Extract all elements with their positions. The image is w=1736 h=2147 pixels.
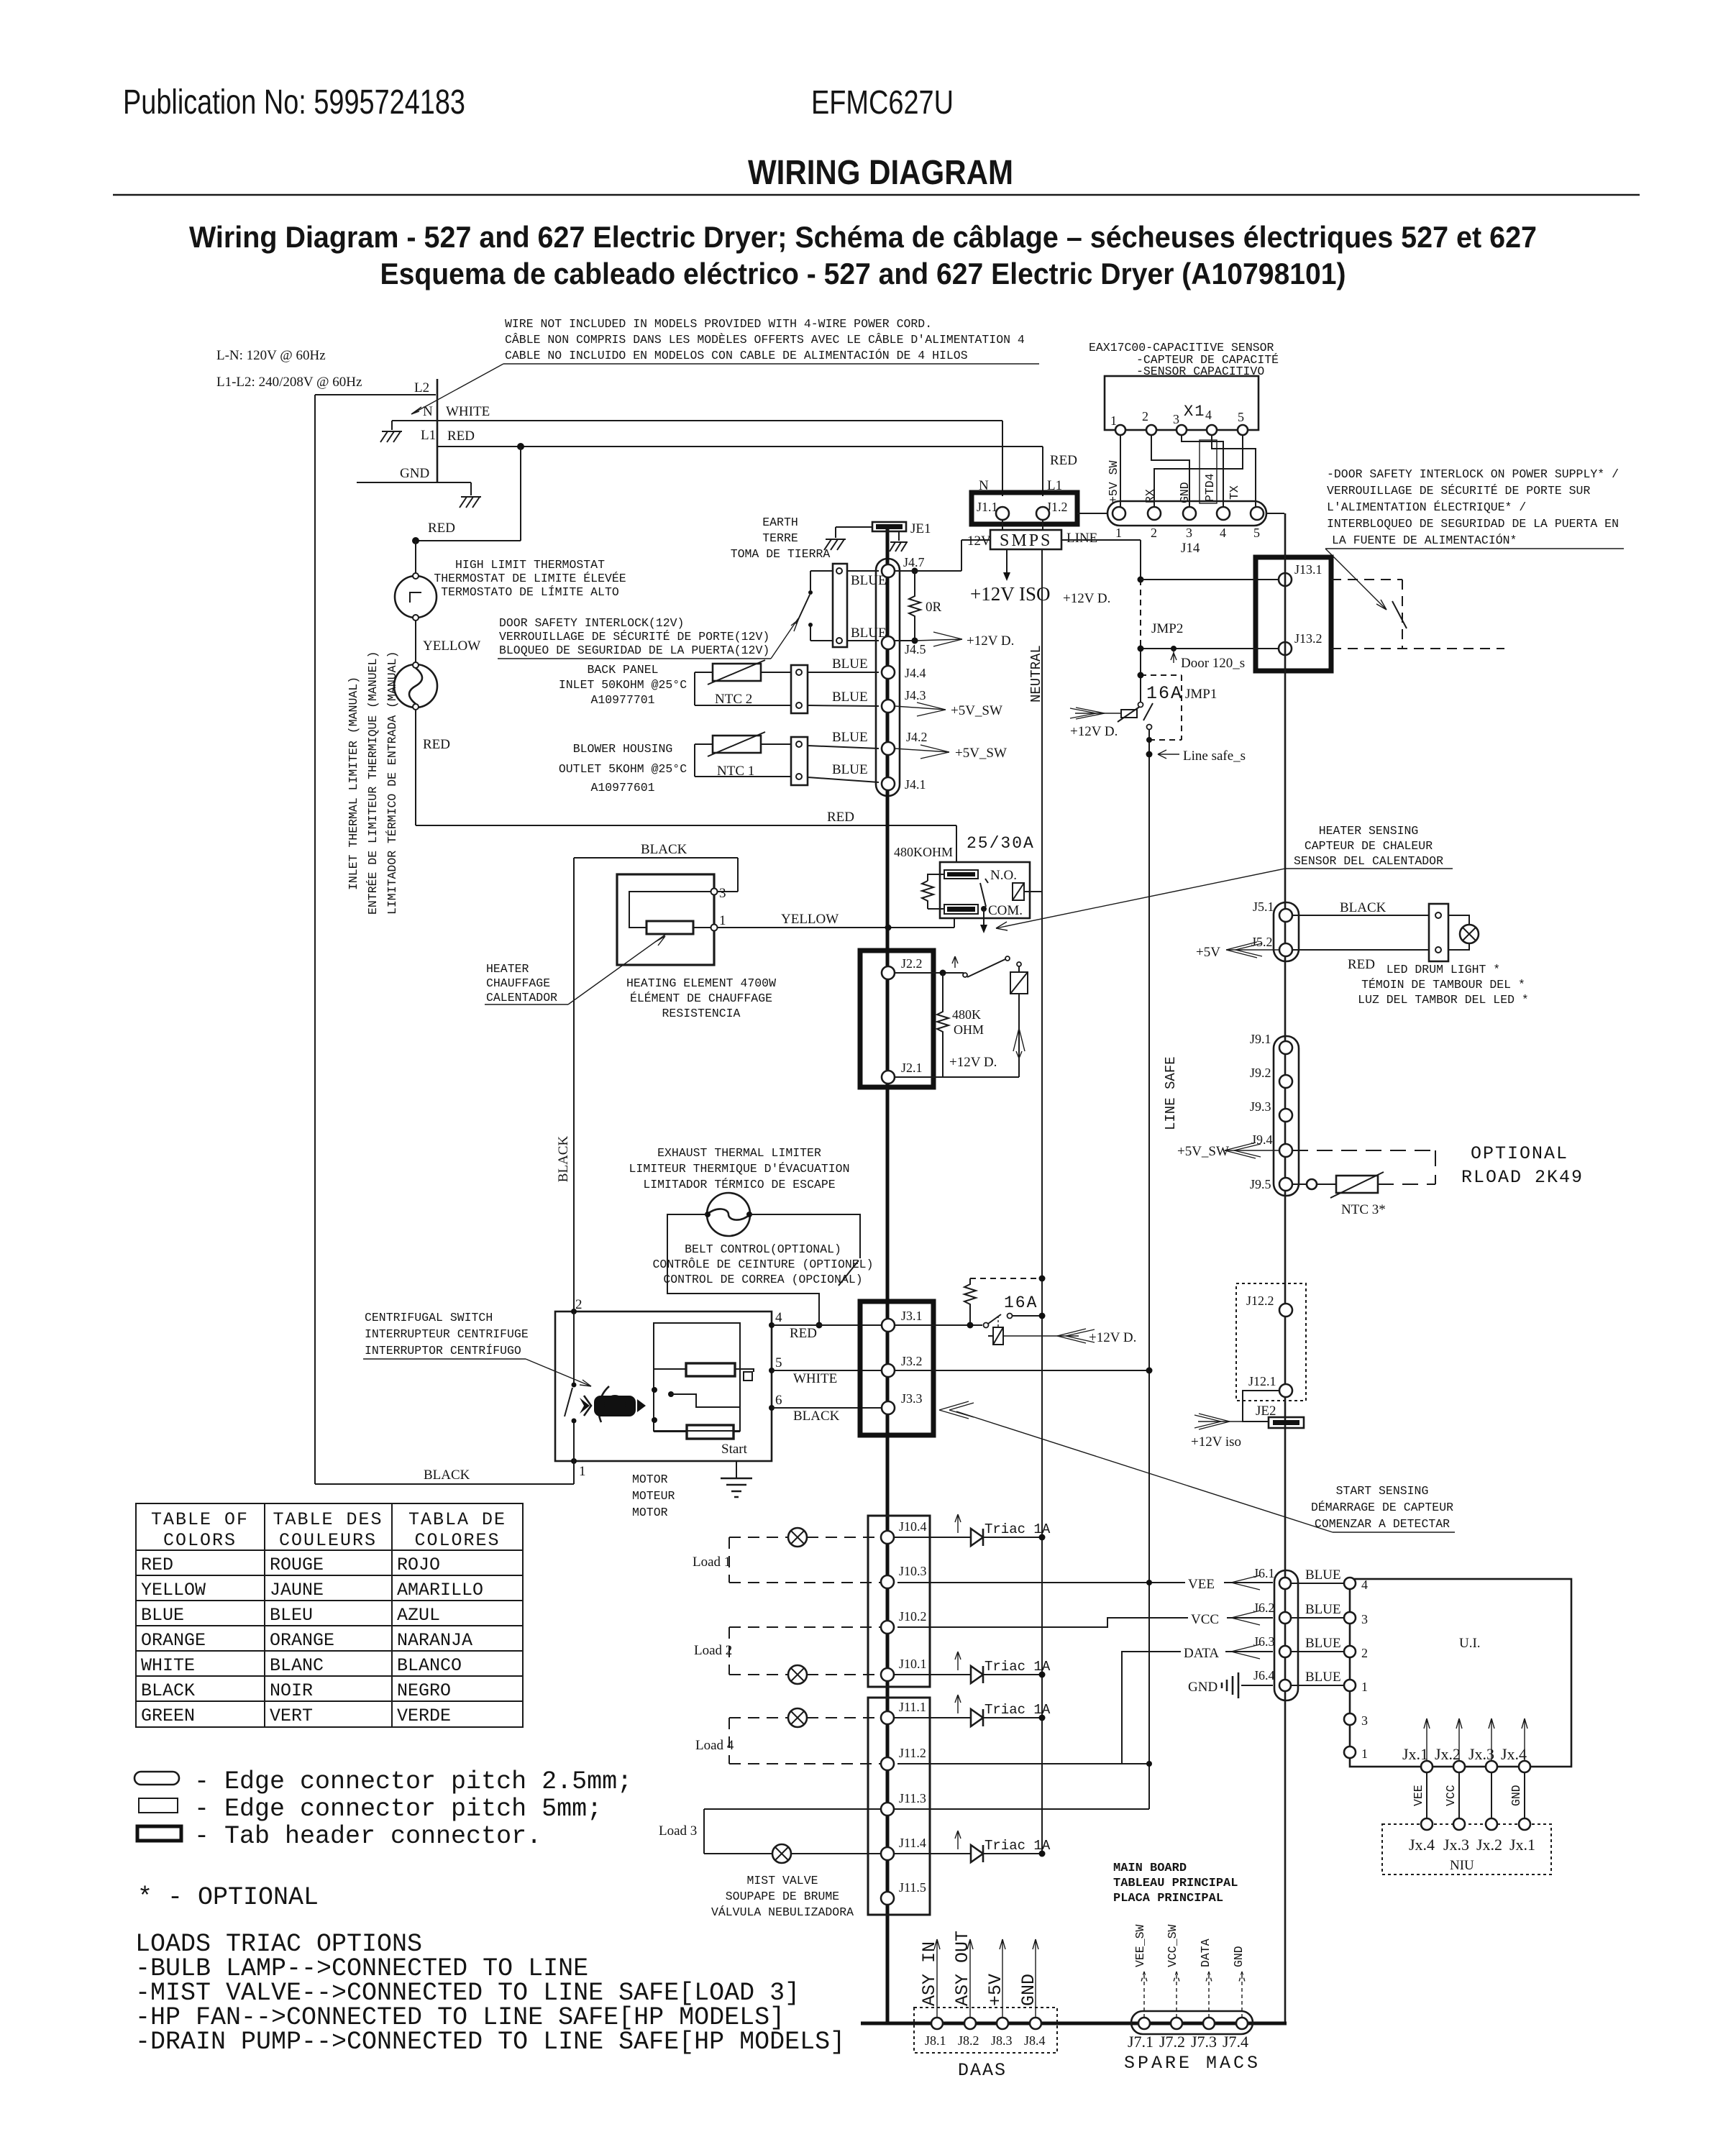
svg-text:J6.1: J6.1 (1253, 1566, 1275, 1580)
svg-text:5: 5 (775, 1355, 782, 1370)
svg-text:5: 5 (1238, 410, 1244, 424)
svg-text:+12V ISO: +12V ISO (970, 583, 1051, 605)
svg-text:J11.3: J11.3 (899, 1791, 926, 1805)
svg-text:4: 4 (1361, 1578, 1368, 1592)
svg-text:J8.2: J8.2 (958, 2033, 979, 2048)
svg-text:HEATING ELEMENT 4700W: HEATING ELEMENT 4700W (626, 976, 776, 990)
svg-text:Load 3: Load 3 (659, 1823, 697, 1839)
svg-text:J4.4: J4.4 (905, 666, 926, 680)
svg-text:SMPS: SMPS (1000, 531, 1052, 550)
svg-text:J12.1: J12.1 (1248, 1374, 1276, 1388)
svg-text:L1-L2: 240/208V @ 60Hz: L1-L2: 240/208V @ 60Hz (216, 375, 362, 390)
svg-text:- Tab header connector.: - Tab header connector. (194, 1822, 542, 1851)
svg-text:BLOQUEO DE SEGURIDAD DE LA PUE: BLOQUEO DE SEGURIDAD DE LA PUERTA(12V) (499, 644, 769, 657)
svg-text:Publication No: 5995724183: Publication No: 5995724183 (123, 83, 465, 122)
svg-text:ÉLÉMENT DE CHAUFFAGE: ÉLÉMENT DE CHAUFFAGE (630, 992, 772, 1005)
svg-text:COLORS: COLORS (163, 1530, 237, 1551)
svg-text:TABLEAU PRINCIPAL: TABLEAU PRINCIPAL (1113, 1877, 1238, 1890)
svg-text:Jx.4: Jx.4 (1501, 1745, 1527, 1763)
svg-text:COULEURS: COULEURS (279, 1530, 377, 1551)
svg-text:2: 2 (1151, 526, 1157, 540)
svg-text:J4.5: J4.5 (905, 642, 926, 656)
svg-text:Triac 1A: Triac 1A (985, 1702, 1051, 1718)
svg-text:GND: GND (1188, 1680, 1218, 1695)
svg-text:J7.4: J7.4 (1223, 2033, 1248, 2051)
svg-text:START SENSING: START SENSING (1336, 1484, 1429, 1498)
svg-text:BLACK: BLACK (424, 1468, 470, 1483)
svg-text:J3.1: J3.1 (901, 1309, 923, 1323)
svg-text:+12V iso: +12V iso (1191, 1434, 1241, 1450)
svg-text:* - OPTIONAL: * - OPTIONAL (137, 1883, 319, 1912)
svg-text:VCC: VCC (1444, 1785, 1458, 1806)
svg-text:1: 1 (719, 913, 726, 928)
svg-text:AZUL: AZUL (397, 1605, 440, 1626)
svg-text:GND: GND (1232, 1946, 1246, 1967)
svg-text:BLUE: BLUE (832, 730, 868, 745)
svg-text:DATA: DATA (1184, 1646, 1219, 1661)
svg-text:5: 5 (1253, 526, 1260, 540)
svg-text:YELLOW: YELLOW (141, 1580, 206, 1601)
svg-text:EXHAUST THERMAL LIMITER: EXHAUST THERMAL LIMITER (657, 1146, 821, 1160)
svg-text:INTERBLOQUEO DE SEGURIDAD DE L: INTERBLOQUEO DE SEGURIDAD DE LA PUERTA E… (1327, 517, 1619, 531)
svg-text:JE1: JE1 (910, 521, 931, 536)
svg-text:SENSOR DEL CALENTADOR: SENSOR DEL CALENTADOR (1294, 854, 1443, 868)
svg-text:Triac 1A: Triac 1A (985, 1838, 1051, 1854)
svg-text:Jx.1: Jx.1 (1402, 1745, 1428, 1763)
svg-text:WHITE: WHITE (141, 1655, 195, 1676)
svg-text:BLUE: BLUE (851, 626, 887, 641)
svg-text:Start: Start (721, 1442, 748, 1457)
svg-text:J7.3: J7.3 (1191, 2033, 1217, 2051)
svg-text:PTD4: PTD4 (1203, 473, 1217, 502)
svg-text:COLORES: COLORES (414, 1530, 500, 1551)
svg-text:DAAS: DAAS (958, 2060, 1007, 2081)
svg-text:J4.3: J4.3 (905, 688, 926, 702)
svg-text:3: 3 (1361, 1612, 1368, 1626)
svg-text:2: 2 (1142, 409, 1148, 424)
svg-text:CABLE NO INCLUIDO EN MODELOS C: CABLE NO INCLUIDO EN MODELOS CON CABLE D… (505, 349, 968, 362)
svg-text:TX: TX (1228, 485, 1241, 500)
svg-text:Jx.4: Jx.4 (1409, 1836, 1435, 1854)
svg-text:J13.1: J13.1 (1294, 562, 1322, 577)
svg-text:SPARE MACS: SPARE MACS (1124, 2053, 1261, 2074)
svg-text:BACK PANEL: BACK PANEL (587, 663, 658, 677)
svg-text:Triac 1A: Triac 1A (985, 1659, 1051, 1675)
svg-text:J3.2: J3.2 (901, 1354, 923, 1368)
svg-text:VERROUILLAGE DE SÉCURITÉ DE PO: VERROUILLAGE DE SÉCURITÉ DE PORTE(12V) (499, 630, 769, 644)
svg-text:RED: RED (1348, 957, 1375, 972)
svg-text:CENTRIFUGAL SWITCH: CENTRIFUGAL SWITCH (365, 1311, 493, 1324)
svg-text:VEE: VEE (1412, 1785, 1425, 1806)
svg-text:OUTLET 5KOHM @25°C: OUTLET 5KOHM @25°C (559, 762, 687, 776)
svg-text:BLUE: BLUE (141, 1605, 184, 1626)
svg-text:LIMITADOR TÉRMICO DE ENTRADA (: LIMITADOR TÉRMICO DE ENTRADA (MANUAL) (385, 651, 399, 915)
svg-text:NIU: NIU (1450, 1858, 1474, 1873)
svg-text:BLUE: BLUE (851, 573, 887, 588)
svg-text:25/30A: 25/30A (967, 834, 1035, 853)
svg-text:MOTEUR: MOTEUR (632, 1489, 675, 1503)
svg-text:0R: 0R (926, 600, 942, 615)
svg-text:ASY OUT: ASY OUT (952, 1931, 973, 2006)
svg-text:ENTRÉE DE LIMITEUR THERMIQUE (: ENTRÉE DE LIMITEUR THERMIQUE (MANUEL) (366, 651, 380, 915)
svg-text:RESISTENCIA: RESISTENCIA (662, 1007, 741, 1020)
svg-text:J11.2: J11.2 (899, 1746, 926, 1760)
svg-text:GND: GND (1509, 1785, 1523, 1806)
svg-text:BLACK: BLACK (641, 842, 687, 857)
svg-text:Wiring Diagram - 527 and 627 E: Wiring Diagram - 527 and 627 Electric Dr… (189, 220, 1537, 254)
svg-text:-DRAIN PUMP-->CONNECTED TO LIN: -DRAIN PUMP-->CONNECTED TO LINE SAFE[HP … (135, 2028, 845, 2056)
svg-text:RLOAD 2K49: RLOAD 2K49 (1461, 1167, 1584, 1188)
svg-text:RED: RED (827, 810, 854, 825)
svg-text:VÁLVULA NEBULIZADORA: VÁLVULA NEBULIZADORA (711, 1905, 854, 1919)
svg-text:J5.1: J5.1 (1253, 899, 1274, 914)
svg-text:JMP1: JMP1 (1185, 687, 1217, 702)
svg-text:X1: X1 (1184, 403, 1205, 421)
svg-text:J14: J14 (1181, 541, 1200, 556)
svg-text:YELLOW: YELLOW (781, 912, 839, 927)
svg-text:J4.7: J4.7 (903, 555, 925, 569)
svg-text:4: 4 (775, 1310, 782, 1325)
svg-text:Load 1: Load 1 (693, 1555, 731, 1570)
svg-text:L'ALIMENTATION ÉLECTRIQUE* /: L'ALIMENTATION ÉLECTRIQUE* / (1327, 500, 1526, 514)
svg-text:+12V D.: +12V D. (1063, 591, 1110, 606)
svg-text:BLUE: BLUE (1305, 1602, 1341, 1617)
svg-text:J9.3: J9.3 (1250, 1099, 1271, 1114)
svg-text:N.O.: N.O. (990, 868, 1017, 883)
svg-text:BLANCO: BLANCO (397, 1655, 462, 1676)
svg-text:6: 6 (775, 1393, 782, 1408)
svg-text:GREEN: GREEN (141, 1706, 195, 1726)
svg-text:NARANJA: NARANJA (397, 1630, 472, 1651)
svg-text:COM.: COM. (988, 903, 1023, 918)
svg-text:MAIN BOARD: MAIN BOARD (1113, 1862, 1187, 1875)
svg-text:LA FUENTE DE ALIMENTACIÓN*: LA FUENTE DE ALIMENTACIÓN* (1332, 534, 1517, 547)
svg-text:+5V SW: +5V SW (1107, 460, 1120, 503)
svg-text:HIGH LIMIT THERMOSTAT: HIGH LIMIT THERMOSTAT (455, 558, 605, 572)
svg-text:SOUPAPE DE BRUME: SOUPAPE DE BRUME (726, 1890, 840, 1903)
svg-text:WIRE NOT INCLUDED IN MODELS PR: WIRE NOT INCLUDED IN MODELS PROVIDED WIT… (505, 317, 932, 331)
svg-text:+12V D.: +12V D. (1070, 724, 1118, 739)
svg-text:J10.3: J10.3 (899, 1564, 927, 1578)
svg-text:480KOHM: 480KOHM (894, 845, 953, 859)
svg-text:+12V D.: +12V D. (1089, 1330, 1136, 1345)
svg-text:J1.1: J1.1 (977, 500, 998, 514)
svg-text:BLACK: BLACK (793, 1409, 840, 1424)
svg-text:GND: GND (1018, 1974, 1039, 2006)
svg-text:J9.4: J9.4 (1251, 1132, 1273, 1147)
svg-text:GND: GND (1178, 482, 1192, 503)
svg-text:BLACK: BLACK (141, 1680, 195, 1701)
svg-text:RED: RED (790, 1326, 817, 1341)
svg-text:VCC_SW: VCC_SW (1166, 1924, 1179, 1967)
svg-text:L1: L1 (421, 428, 436, 443)
svg-text:AMARILLO: AMARILLO (397, 1580, 483, 1601)
svg-text:3: 3 (1361, 1713, 1368, 1728)
svg-text:ROJO: ROJO (397, 1555, 440, 1575)
svg-text:+5V_SW: +5V_SW (1177, 1144, 1229, 1159)
svg-text:J4.1: J4.1 (905, 777, 926, 792)
svg-text:OPTIONAL: OPTIONAL (1471, 1143, 1568, 1164)
svg-text:Esquema de cableado eléctrico: Esquema de cableado eléctrico - 527 and … (380, 257, 1346, 290)
svg-text:VERDE: VERDE (397, 1706, 451, 1726)
svg-text:ROUGE: ROUGE (270, 1555, 324, 1575)
svg-text:THERMOSTAT DE LIMITE ÉLEVÉE: THERMOSTAT DE LIMITE ÉLEVÉE (434, 572, 626, 585)
svg-text:TERRE: TERRE (762, 531, 798, 545)
svg-text:L-N: 120V @ 60Hz: L-N: 120V @ 60Hz (216, 348, 326, 363)
svg-text:J6.4: J6.4 (1253, 1668, 1275, 1683)
svg-text:J11.1: J11.1 (899, 1700, 926, 1714)
svg-text:RED: RED (1050, 453, 1077, 468)
svg-text:J2.2: J2.2 (901, 956, 923, 971)
svg-text:DÉMARRAGE DE CAPTEUR: DÉMARRAGE DE CAPTEUR (1311, 1501, 1453, 1514)
svg-text:BELT CONTROL(OPTIONAL): BELT CONTROL(OPTIONAL) (685, 1242, 841, 1256)
svg-text:Load 2: Load 2 (694, 1643, 732, 1658)
svg-text:1: 1 (1361, 1747, 1368, 1761)
svg-text:NOIR: NOIR (270, 1680, 313, 1701)
svg-text:VERT: VERT (270, 1706, 313, 1726)
svg-text:Jx.2: Jx.2 (1435, 1745, 1461, 1763)
svg-text:J5.2: J5.2 (1251, 935, 1273, 949)
svg-text:3: 3 (1186, 526, 1192, 540)
svg-text:VEE: VEE (1188, 1577, 1215, 1592)
svg-text:J10.2: J10.2 (899, 1609, 927, 1624)
svg-text:TABLA DE: TABLA DE (408, 1509, 506, 1530)
svg-text:JMP2: JMP2 (1151, 621, 1183, 636)
svg-text:J9.2: J9.2 (1250, 1066, 1271, 1080)
svg-text:TÉMOIN DE TAMBOUR DEL *: TÉMOIN DE TAMBOUR DEL * (1361, 978, 1525, 992)
svg-text:RED: RED (428, 521, 455, 536)
svg-text:NTC 2: NTC 2 (715, 692, 752, 707)
svg-text:2: 2 (1361, 1646, 1368, 1660)
svg-text:LIMITEUR THERMIQUE D'ÉVACUATIO: LIMITEUR THERMIQUE D'ÉVACUATION (629, 1162, 850, 1176)
svg-text:VCC: VCC (1191, 1612, 1219, 1627)
svg-text:CHAUFFAGE: CHAUFFAGE (486, 976, 550, 990)
svg-text:2: 2 (575, 1297, 583, 1312)
svg-text:JAUNE: JAUNE (270, 1580, 324, 1601)
svg-text:INLET 50KOHM @25°C: INLET 50KOHM @25°C (559, 678, 687, 692)
svg-text:+5V_SW: +5V_SW (951, 703, 1002, 718)
svg-text:A10977601: A10977601 (590, 781, 654, 795)
svg-text:DOOR SAFETY INTERLOCK(12V): DOOR SAFETY INTERLOCK(12V) (499, 616, 684, 630)
svg-text:RED: RED (423, 737, 450, 752)
svg-text:CALENTADOR: CALENTADOR (486, 991, 557, 1004)
svg-text:BLUE: BLUE (1305, 1636, 1341, 1651)
svg-text:BLUE: BLUE (832, 762, 868, 777)
svg-text:BLUE: BLUE (832, 656, 868, 672)
svg-text:WHITE: WHITE (446, 404, 490, 419)
svg-text:CAPTEUR DE CHALEUR: CAPTEUR DE CHALEUR (1305, 839, 1433, 853)
svg-text:J4.2: J4.2 (906, 730, 928, 744)
svg-text:BLANC: BLANC (270, 1655, 324, 1676)
svg-text:COMENZAR A DETECTAR: COMENZAR A DETECTAR (1315, 1517, 1450, 1531)
svg-text:J6.2: J6.2 (1253, 1601, 1275, 1615)
svg-text:J8.1: J8.1 (925, 2033, 946, 2048)
svg-text:ASY IN: ASY IN (919, 1941, 940, 2006)
svg-text:INLET THERMAL LIMITER (MANUAL): INLET THERMAL LIMITER (MANUAL) (347, 677, 360, 890)
svg-text:J13.2: J13.2 (1294, 631, 1322, 646)
svg-text:BLACK: BLACK (556, 1136, 571, 1183)
svg-text:3: 3 (1173, 412, 1179, 426)
svg-text:TOMA DE TIERRA: TOMA DE TIERRA (731, 547, 831, 561)
svg-text:TABLE OF: TABLE OF (151, 1509, 249, 1530)
svg-text:MOTOR: MOTOR (632, 1473, 668, 1486)
svg-text:480K: 480K (952, 1007, 981, 1022)
svg-text:1: 1 (1115, 526, 1122, 540)
svg-text:Jx.1: Jx.1 (1509, 1836, 1535, 1854)
svg-text:CONTRÔLE DE CEINTURE (OPTIONEL: CONTRÔLE DE CEINTURE (OPTIONEL) (653, 1258, 874, 1271)
svg-text:MIST VALVE: MIST VALVE (746, 1874, 818, 1887)
svg-text:A10977701: A10977701 (590, 693, 654, 707)
svg-text:Load 4: Load 4 (695, 1738, 734, 1753)
svg-text:L2: L2 (414, 380, 429, 395)
svg-text:J10.4: J10.4 (899, 1519, 927, 1534)
svg-text:+5V: +5V (1196, 945, 1220, 960)
svg-text:OHM: OHM (954, 1022, 984, 1037)
svg-text:HEATER: HEATER (486, 962, 529, 976)
svg-text:J11.4: J11.4 (899, 1836, 926, 1850)
svg-text:ORANGE: ORANGE (141, 1630, 206, 1651)
svg-text:LUZ DEL TAMBOR DEL LED *: LUZ DEL TAMBOR DEL LED * (1358, 993, 1529, 1007)
svg-text:J8.3: J8.3 (991, 2033, 1013, 2048)
svg-text:+12V D.: +12V D. (949, 1055, 997, 1070)
svg-text:J9.1: J9.1 (1250, 1032, 1271, 1046)
svg-text:4: 4 (1205, 408, 1212, 422)
svg-text:WIRING DIAGRAM: WIRING DIAGRAM (748, 154, 1013, 192)
svg-text:1: 1 (579, 1464, 586, 1479)
svg-text:16A: 16A (1004, 1294, 1038, 1312)
svg-text:CÂBLE NON COMPRIS DANS LES MOD: CÂBLE NON COMPRIS DANS LES MODÈLES OFFER… (505, 333, 1025, 347)
svg-text:TERMOSTATO DE LÍMITE ALTO: TERMOSTATO DE LÍMITE ALTO (441, 585, 619, 599)
svg-text:J12.2: J12.2 (1246, 1294, 1274, 1308)
svg-text:NTC 3*: NTC 3* (1341, 1202, 1386, 1217)
svg-text:Jx.3: Jx.3 (1468, 1745, 1494, 1763)
svg-text:BLUE: BLUE (1305, 1567, 1341, 1583)
svg-text:WHITE: WHITE (793, 1371, 837, 1386)
svg-text:1: 1 (1361, 1680, 1368, 1694)
svg-text:J3.3: J3.3 (901, 1391, 923, 1406)
svg-text:+5V_SW: +5V_SW (955, 746, 1007, 761)
svg-text:Door 120_s: Door 120_s (1181, 656, 1245, 671)
svg-text:MOTOR: MOTOR (632, 1506, 668, 1519)
svg-text:J6.3: J6.3 (1253, 1634, 1275, 1649)
svg-text:GND: GND (400, 466, 429, 481)
svg-text:Line safe_s: Line safe_s (1183, 749, 1246, 764)
svg-text:+5V: +5V (985, 1974, 1006, 2006)
svg-text:BLEU: BLEU (270, 1605, 313, 1626)
svg-text:U.I.: U.I. (1459, 1636, 1481, 1651)
svg-text:J2.1: J2.1 (901, 1061, 923, 1075)
svg-text:INTERRUPTOR CENTRÍFUGO: INTERRUPTOR CENTRÍFUGO (365, 1344, 521, 1358)
svg-text:J7.1: J7.1 (1128, 2033, 1153, 2051)
svg-text:12V: 12V (967, 534, 991, 549)
svg-text:BLUE: BLUE (1305, 1670, 1341, 1685)
svg-text:BLUE: BLUE (832, 690, 868, 705)
svg-text:J7.2: J7.2 (1159, 2033, 1185, 2051)
svg-text:YELLOW: YELLOW (423, 638, 480, 654)
svg-text:EARTH: EARTH (762, 516, 798, 529)
svg-text:-DOOR SAFETY INTERLOCK ON POWE: -DOOR SAFETY INTERLOCK ON POWER SUPPLY* … (1327, 467, 1619, 481)
svg-text:4: 4 (1220, 526, 1226, 540)
svg-text:16A: 16A (1146, 683, 1183, 704)
svg-text:1: 1 (1110, 413, 1117, 428)
svg-text:Triac 1A: Triac 1A (985, 1521, 1051, 1537)
svg-text:LINE: LINE (1066, 531, 1097, 546)
svg-text:Jx.3: Jx.3 (1443, 1836, 1469, 1854)
svg-text:HEATER SENSING: HEATER SENSING (1319, 824, 1419, 838)
svg-text:TABLE DES: TABLE DES (273, 1509, 383, 1530)
svg-text:ORANGE: ORANGE (270, 1630, 334, 1651)
svg-text:LINE SAFE: LINE SAFE (1163, 1056, 1179, 1130)
svg-text:BLACK: BLACK (1340, 900, 1386, 915)
svg-text:DATA: DATA (1199, 1938, 1212, 1967)
svg-text:NEGRO: NEGRO (397, 1680, 451, 1701)
svg-text:BLOWER HOUSING: BLOWER HOUSING (573, 742, 673, 756)
svg-text:RED: RED (447, 429, 475, 444)
svg-text:J8.4: J8.4 (1024, 2033, 1046, 2048)
svg-text:Jx.2: Jx.2 (1476, 1836, 1502, 1854)
svg-text:- Edge connector pitch 5mm;: - Edge connector pitch 5mm; (194, 1795, 602, 1823)
svg-text:RED: RED (141, 1555, 173, 1575)
svg-text:PLACA PRINCIPAL: PLACA PRINCIPAL (1113, 1892, 1223, 1905)
svg-text:- Edge connector pitch 2.5mm;: - Edge connector pitch 2.5mm; (194, 1767, 632, 1796)
svg-text:VEE_SW: VEE_SW (1133, 1924, 1147, 1967)
svg-text:J10.1: J10.1 (899, 1657, 927, 1671)
svg-text:+12V D.: +12V D. (967, 633, 1014, 649)
svg-text:EFMC627U: EFMC627U (811, 83, 954, 121)
svg-text:INTERRUPTEUR CENTRIFUGE: INTERRUPTEUR CENTRIFUGE (365, 1327, 529, 1341)
svg-text:LED DRUM LIGHT *: LED DRUM LIGHT * (1386, 963, 1500, 976)
svg-text:N: N (423, 404, 433, 419)
svg-text:VERROUILLAGE DE SÉCURITÉ DE PO: VERROUILLAGE DE SÉCURITÉ DE PORTE SUR (1327, 484, 1590, 498)
svg-text:LIMITADOR TÉRMICO DE ESCAPE: LIMITADOR TÉRMICO DE ESCAPE (643, 1178, 835, 1191)
svg-text:3: 3 (719, 886, 726, 901)
svg-text:J9.5: J9.5 (1250, 1177, 1271, 1191)
svg-text:CONTROL DE CORREA (OPCIONAL): CONTROL DE CORREA (OPCIONAL) (663, 1273, 862, 1286)
svg-text:J11.5: J11.5 (899, 1880, 926, 1895)
